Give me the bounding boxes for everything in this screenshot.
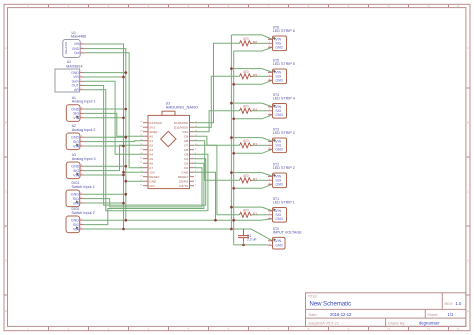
svg-text:GND: GND — [72, 47, 80, 51]
svg-text:A4: A4 — [149, 152, 153, 156]
svg-text:GND: GND — [275, 46, 283, 50]
svg-text:12: 12 — [456, 4, 460, 8]
svg-text:AR: AR — [74, 88, 79, 92]
svg-text:D7: D7 — [184, 143, 188, 147]
svg-text:EasyEDA V5.9.22: EasyEDA V5.9.22 — [309, 321, 339, 325]
svg-text:SIG: SIG — [73, 223, 79, 227]
svg-text:A5: A5 — [149, 157, 153, 161]
svg-text:GND: GND — [275, 244, 283, 248]
svg-text:B: B — [467, 121, 469, 125]
svg-text:Max4466: Max4466 — [71, 34, 86, 38]
svg-text:GND: GND — [71, 219, 80, 223]
svg-text:U2: U2 — [67, 60, 71, 64]
svg-text:GND: GND — [275, 148, 283, 152]
svg-text:A7: A7 — [149, 166, 153, 170]
svg-text:VIN: VIN — [74, 42, 80, 46]
svg-text:2.2 uF: 2.2 uF — [247, 238, 257, 242]
svg-text:D13/SCK: D13/SCK — [149, 121, 163, 125]
svg-text:MAX9814: MAX9814 — [66, 64, 82, 68]
svg-text:Max4466: Max4466 — [64, 41, 68, 54]
svg-text:New Schematic: New Schematic — [310, 301, 352, 307]
svg-text:D3: D3 — [184, 161, 188, 165]
svg-text:A0: A0 — [149, 134, 153, 138]
svg-text:D6: D6 — [184, 148, 188, 152]
svg-text:12: 12 — [456, 327, 460, 331]
svg-text:B: B — [5, 121, 7, 125]
svg-text:A2: A2 — [149, 143, 153, 147]
svg-text:E: E — [467, 309, 469, 313]
svg-text:10: 10 — [387, 4, 391, 8]
svg-text:GND: GND — [149, 179, 157, 183]
svg-text:R1: R1 — [253, 212, 257, 216]
svg-text:A1: A1 — [149, 139, 153, 143]
svg-text:LED STRIP 3: LED STRIP 3 — [273, 131, 295, 135]
svg-text:R6: R6 — [253, 41, 257, 45]
svg-text:A: A — [5, 46, 7, 50]
svg-text:GND: GND — [275, 217, 283, 221]
svg-text:D2: D2 — [184, 166, 188, 170]
svg-text:GND: GND — [71, 107, 80, 111]
svg-text:ARDUINO_NANO: ARDUINO_NANO — [166, 104, 198, 109]
svg-text:470: 470 — [243, 174, 249, 178]
svg-text:+5V: +5V — [149, 170, 156, 174]
svg-text:11: 11 — [427, 4, 430, 8]
svg-text:1.0: 1.0 — [456, 301, 462, 306]
svg-text:SIG: SIG — [73, 112, 79, 116]
svg-text:GND: GND — [275, 183, 283, 187]
svg-text:LED STRIP 1: LED STRIP 1 — [273, 201, 295, 205]
svg-text:INPUT VOLTAGE: INPUT VOLTAGE — [273, 230, 302, 234]
svg-text:D1/TX: D1/TX — [179, 184, 188, 188]
svg-text:R3: R3 — [253, 143, 257, 147]
svg-text:Switch Input 2: Switch Input 2 — [72, 211, 95, 215]
svg-text:A3: A3 — [149, 148, 153, 152]
svg-text:LED STRIP 6: LED STRIP 6 — [273, 29, 295, 33]
svg-text:VIN: VIN — [149, 184, 154, 188]
svg-text:A: A — [467, 46, 469, 50]
svg-text:Out: Out — [74, 51, 80, 55]
svg-text:D12/MISO: D12/MISO — [174, 121, 189, 125]
svg-text:GND: GND — [71, 71, 79, 75]
svg-text:470: 470 — [243, 70, 249, 74]
svg-text:TITLE:: TITLE: — [308, 294, 318, 298]
svg-text:470: 470 — [243, 37, 249, 41]
svg-text:GND: GND — [181, 170, 189, 174]
svg-text:D10: D10 — [183, 130, 189, 134]
svg-text:GND: GND — [71, 136, 80, 140]
svg-text:D9: D9 — [184, 134, 188, 138]
svg-text:GND: GND — [275, 79, 283, 83]
svg-text:D5: D5 — [184, 152, 188, 156]
svg-text:GND: GND — [275, 113, 283, 117]
svg-text:SIG: SIG — [73, 197, 79, 201]
svg-text:degnarraer: degnarraer — [419, 320, 440, 325]
svg-text:REV:: REV: — [445, 302, 454, 306]
svg-text:D4: D4 — [184, 157, 188, 161]
svg-text:3V3: 3V3 — [149, 125, 155, 129]
svg-text:R5: R5 — [253, 74, 257, 78]
svg-text:470: 470 — [243, 105, 249, 109]
svg-text:D0/RX: D0/RX — [179, 179, 188, 183]
svg-text:11: 11 — [427, 327, 430, 331]
svg-text:10: 10 — [387, 327, 391, 331]
svg-text:D11/MOSI: D11/MOSI — [174, 125, 188, 129]
svg-text:SIG: SIG — [73, 169, 79, 173]
svg-text:470: 470 — [243, 139, 249, 143]
svg-text:GND: GND — [71, 165, 80, 169]
svg-text:2018-12-12: 2018-12-12 — [330, 312, 352, 317]
svg-text:A6: A6 — [149, 161, 153, 165]
svg-text:RESET: RESET — [149, 175, 159, 179]
svg-text:VIN: VIN — [275, 239, 281, 243]
svg-text:GND: GND — [71, 193, 80, 197]
svg-text:D8: D8 — [184, 139, 188, 143]
svg-text:470: 470 — [243, 209, 249, 213]
svg-text:RESET: RESET — [178, 175, 188, 179]
svg-text:Switch Input 1: Switch Input 1 — [72, 185, 95, 189]
svg-text:Sheet:: Sheet: — [427, 313, 438, 317]
svg-text:Analog Input 1: Analog Input 1 — [72, 100, 96, 104]
svg-text:SIG: SIG — [73, 140, 79, 144]
svg-text:Analog Input 3: Analog Input 3 — [72, 157, 96, 161]
svg-text:Drawn By:: Drawn By: — [388, 321, 406, 325]
svg-text:R2: R2 — [253, 178, 257, 182]
svg-text:Analog Input 2: Analog Input 2 — [72, 128, 96, 132]
svg-text:Date:: Date: — [309, 313, 318, 317]
svg-text:LED STRIP 2: LED STRIP 2 — [273, 166, 295, 170]
svg-text:R4: R4 — [253, 108, 257, 112]
svg-text:AREF: AREF — [149, 130, 157, 134]
svg-text:E: E — [5, 309, 7, 313]
svg-text:LED STRIP 4: LED STRIP 4 — [273, 97, 295, 101]
svg-text:1/1: 1/1 — [448, 312, 454, 317]
svg-text:LED STRIP 5: LED STRIP 5 — [273, 62, 295, 66]
